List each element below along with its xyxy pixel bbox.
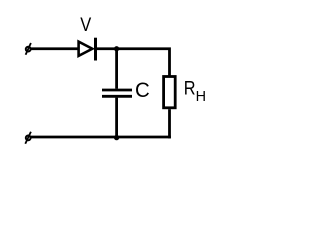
svg-text:V: V bbox=[80, 14, 91, 36]
node (junction dot where capacitor branch meets top rail) bbox=[114, 46, 119, 51]
diode V (cathode bar) bbox=[94, 38, 97, 61]
resistor RH (rectangle body) bbox=[164, 77, 176, 108]
svg-text:R: R bbox=[184, 77, 196, 99]
capacitor C (top plate) bbox=[102, 89, 132, 92]
wire (top rail from diode cathode to top-right corner and down to resistor) bbox=[96, 47, 171, 76]
capacitor C (bottom plate) bbox=[102, 95, 132, 98]
wire (capacitor bottom lead) bbox=[115, 98, 118, 137]
wire (bottom rail from input terminal to bottom-right corner) bbox=[30, 136, 171, 139]
wire (capacitor top lead) bbox=[115, 49, 118, 89]
svg-text:H: H bbox=[196, 89, 206, 105]
terminal (top input) bbox=[26, 43, 31, 55]
svg-text:C: C bbox=[135, 78, 150, 102]
node (junction dot where capacitor branch meets bottom rail) bbox=[114, 135, 119, 140]
wire (top rail from input terminal to diode anode) bbox=[30, 47, 79, 50]
terminal (bottom input) bbox=[25, 132, 31, 144]
diode V (triangle anode) bbox=[79, 42, 93, 56]
wire (resistor bottom lead) bbox=[168, 109, 171, 138]
